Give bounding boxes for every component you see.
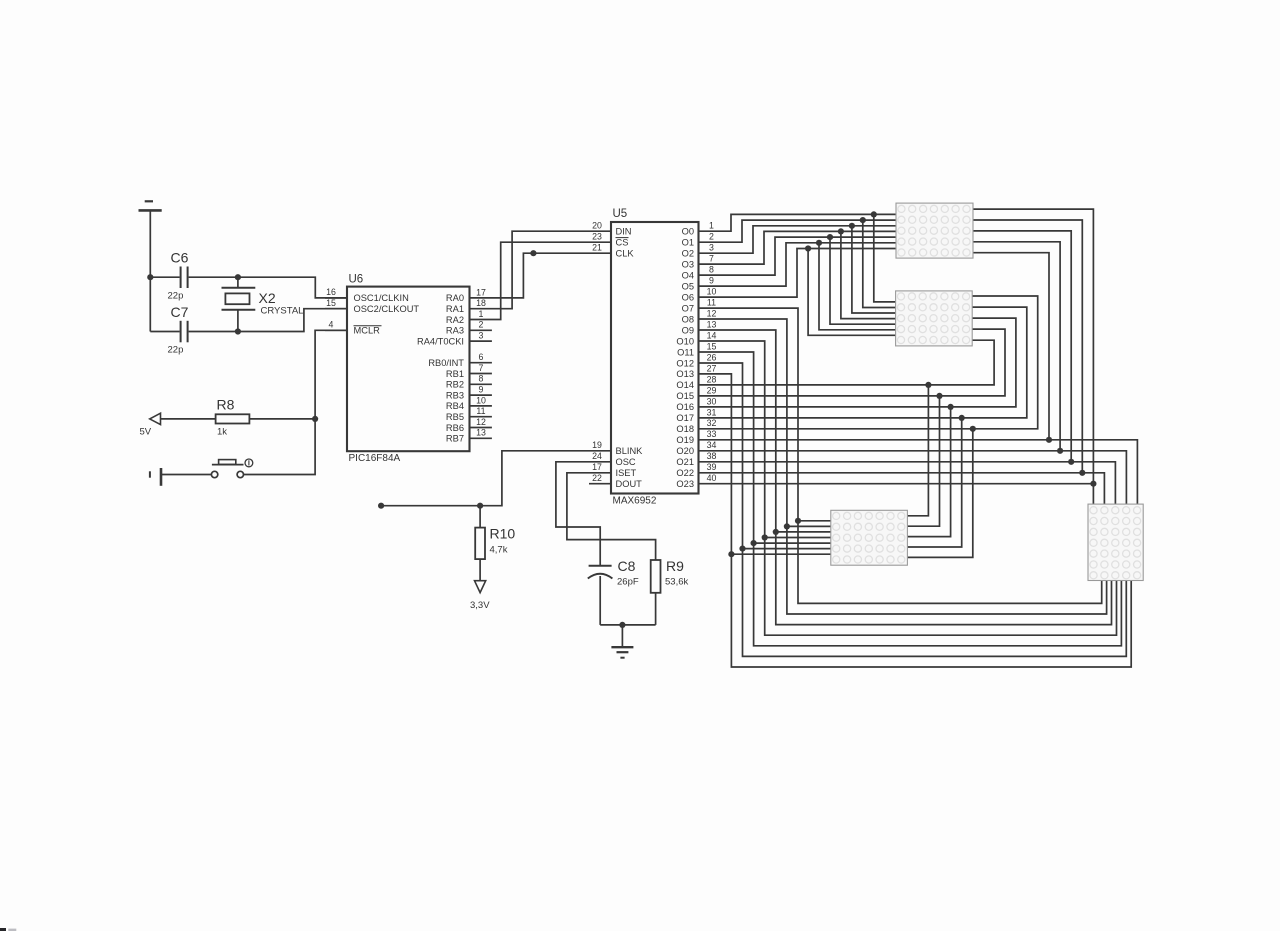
IC U5 MAX6952 [611, 208, 699, 507]
svg-text:39: 39 [707, 462, 717, 472]
svg-text:RB0/INT: RB0/INT [428, 358, 464, 368]
node junction O17-DISP3R [959, 415, 965, 421]
svg-text:2: 2 [709, 232, 714, 242]
node junction O2 row [849, 223, 855, 229]
wire O11 (pin 15) down to DISP4 bottom [699, 352, 1122, 646]
node net stub end [378, 503, 384, 509]
wire RA0 to U5 CLK [470, 253, 612, 298]
svg-text:O23: O23 [676, 479, 694, 489]
ground GND2 (C8/R9) [611, 625, 633, 658]
wire BLINK net [381, 451, 611, 506]
LED matrix display DISP3 (5x7) [831, 510, 908, 565]
svg-text:O8: O8 [682, 314, 694, 324]
wire branch O14 to DISP3 right row1 [907, 385, 928, 516]
svg-text:O21: O21 [676, 457, 694, 467]
wire button left [161, 474, 212, 476]
svg-text:7: 7 [479, 363, 484, 373]
svg-text:X2: X2 [259, 290, 276, 306]
svg-text:4: 4 [329, 319, 334, 329]
resistor R8 1k [161, 397, 316, 438]
node junction X2 top [235, 274, 241, 280]
svg-text:C6: C6 [171, 250, 189, 266]
wire GND1 rail [149, 210, 151, 331]
capacitor C7 [168, 304, 189, 356]
wire DISP1 right row3 down [973, 231, 1071, 462]
wire branch O13 to DISP3 row7 [731, 553, 830, 555]
svg-text:14: 14 [707, 330, 717, 340]
svg-text:32: 32 [707, 418, 717, 428]
node junction ground [619, 622, 625, 628]
svg-text:O1: O1 [682, 238, 694, 248]
svg-text:11: 11 [707, 298, 716, 308]
node junction O12-DISP3 [739, 546, 745, 552]
svg-text:8: 8 [709, 265, 714, 275]
svg-text:CS: CS [616, 238, 629, 248]
wire DISP1 row4 to DISP2 row4 vertical [841, 231, 896, 318]
wire DISP1 row5 to DISP2 row5 vertical [830, 237, 896, 324]
svg-text:33: 33 [707, 429, 717, 439]
wire branch O12 to DISP3 row6 [743, 548, 831, 550]
svg-text:15: 15 [707, 341, 717, 351]
wire O3 (pin 7) to DISP1 row4 [699, 231, 897, 264]
resistor R9 53,6k [622, 558, 688, 625]
svg-text:RA1: RA1 [446, 304, 464, 314]
wire DISP1 right row2 down [973, 220, 1082, 473]
wire O20 (pin 34) to DISP4 top col4 [699, 451, 1127, 504]
svg-text:23: 23 [592, 232, 602, 242]
wire O10 (pin 14) down to DISP4 bottom [699, 341, 1117, 635]
svg-text:20: 20 [592, 221, 602, 231]
wire O16 (pin 30) to DISP2 right row3 [699, 318, 1016, 407]
wire O4 (pin 8) to DISP1 row5 [699, 237, 897, 275]
scan artifact mark [0, 928, 16, 931]
svg-text:27: 27 [707, 363, 717, 373]
svg-text:12: 12 [707, 308, 717, 318]
node junction O1 row [860, 217, 866, 223]
svg-text:26: 26 [707, 352, 717, 362]
svg-text:53,6k: 53,6k [665, 577, 688, 588]
crystal X2 [222, 277, 304, 331]
svg-text:O18: O18 [676, 424, 694, 434]
svg-text:24: 24 [592, 451, 602, 461]
svg-text:17: 17 [476, 287, 486, 297]
node junction O19-DISP1R [1046, 437, 1052, 443]
svg-text:29: 29 [707, 385, 717, 395]
node junction O7-DISP3 [795, 518, 801, 524]
svg-text:19: 19 [592, 440, 602, 450]
wire O22 (pin 39) to DISP4 top col2 [699, 473, 1105, 504]
svg-text:RB6: RB6 [446, 423, 464, 433]
svg-text:RB4: RB4 [446, 401, 464, 411]
svg-text:PIC16F84A: PIC16F84A [349, 453, 401, 464]
svg-text:34: 34 [707, 440, 717, 450]
wire O6 (pin 10) to DISP1 row7 [699, 249, 897, 298]
svg-text:ISET: ISET [616, 468, 637, 478]
node junction O14-DISP3R [925, 382, 931, 388]
svg-text:RB7: RB7 [446, 434, 464, 444]
wire O8 (pin 12) down to DISP4 bottom [699, 319, 1107, 614]
svg-text:9: 9 [479, 385, 484, 395]
svg-text:22p: 22p [168, 291, 184, 302]
svg-text:DIN: DIN [616, 227, 632, 237]
node junction O0 row [871, 211, 877, 217]
node junction X2 bottom [235, 328, 241, 334]
wire OSC2 net: rail to C7 to X2 to U6 pin15 [150, 309, 347, 332]
svg-text:O7: O7 [682, 303, 694, 313]
svg-text:CLK: CLK [616, 249, 635, 259]
svg-text:1: 1 [479, 309, 484, 319]
node junction R10 [477, 503, 483, 509]
wire O15 (pin 29) to DISP2 right row4 [699, 329, 1006, 396]
wire O12 (pin 26) down to DISP4 bottom [699, 363, 1127, 656]
wire branch O11 to DISP3 row5 [754, 542, 831, 544]
wire branch O16 to DISP3 right row3 [907, 407, 950, 537]
svg-text:3,3V: 3,3V [470, 600, 490, 611]
svg-text:O2: O2 [682, 249, 694, 259]
wire O13 (pin 27) down to DISP4 bottom [699, 374, 1132, 667]
svg-text:5V: 5V [140, 427, 152, 438]
wire RA2 to U5 CS [470, 242, 612, 319]
svg-text:RA4/T0CKI: RA4/T0CKI [417, 336, 464, 346]
svg-text:U6: U6 [349, 274, 364, 286]
svg-text:18: 18 [476, 298, 486, 308]
wire DISP1 right row1 down [973, 209, 1093, 504]
power 5V arrow [140, 413, 161, 437]
svg-text:RB1: RB1 [446, 369, 464, 379]
svg-text:7: 7 [709, 254, 714, 264]
svg-text:28: 28 [707, 374, 717, 384]
wire branch O15 to DISP3 right row2 [907, 396, 939, 526]
wire branch O10 to DISP3 row4 [765, 537, 831, 539]
svg-text:O10: O10 [676, 336, 694, 346]
svg-text:16: 16 [326, 287, 336, 297]
node junction C6-rail [147, 274, 153, 280]
svg-text:1k: 1k [217, 427, 227, 438]
svg-text:RA2: RA2 [446, 315, 464, 325]
power 3,3V arrow [470, 581, 490, 611]
svg-text:3: 3 [709, 243, 714, 253]
svg-text:22p: 22p [168, 345, 184, 356]
wire O1 (pin 2) to DISP1 row2 [699, 220, 897, 242]
node junction O18-DISP3R [970, 426, 976, 432]
node junction O3 row [838, 228, 844, 234]
svg-text:O0: O0 [682, 227, 694, 237]
wire DISP1 right row4 down [973, 242, 1060, 451]
svg-text:15: 15 [326, 298, 336, 308]
pin stub DOUT unconnected [589, 483, 611, 485]
svg-text:O6: O6 [682, 292, 694, 302]
svg-text:22: 22 [592, 473, 602, 483]
svg-text:RA0: RA0 [446, 293, 464, 303]
wire branch O17 to DISP3 right row4 [907, 418, 961, 547]
wire DISP1 row1 to DISP2 row1 vertical [874, 214, 896, 302]
svg-text:U5: U5 [613, 208, 628, 220]
wire DISP1 row3 to DISP2 row3 vertical [852, 226, 896, 313]
wire OSC1 net: rail to C6 to X2 to U6 pin16 [150, 277, 347, 298]
svg-text:C8: C8 [618, 558, 636, 574]
svg-text:9: 9 [709, 276, 714, 286]
wire DISP1 row6 to DISP2 row6 vertical [819, 243, 896, 330]
wire U6 left pin stubs [325, 298, 347, 330]
node junction O6 row [805, 245, 811, 251]
wire DISP1 row2 to DISP2 row2 vertical [863, 220, 896, 307]
wire branch O7 to DISP3 row1 [798, 520, 831, 522]
svg-text:RB5: RB5 [446, 412, 464, 422]
svg-text:R8: R8 [217, 397, 235, 413]
node junction O11-DISP3 [751, 540, 757, 546]
svg-text:13: 13 [707, 319, 717, 329]
wire DISP1 row7 to DISP2 row7 vertical [808, 249, 896, 336]
pin numbers U5 left [592, 221, 602, 484]
svg-text:O12: O12 [676, 358, 694, 368]
wire O0 (pin 1) to DISP1 row1 [699, 214, 897, 231]
svg-text:OSC1/CLKIN: OSC1/CLKIN [354, 293, 409, 303]
wire ISET net to R9 [567, 473, 656, 560]
node junction O8-DISP3 [784, 523, 790, 529]
node junction O16-DISP3R [948, 404, 954, 410]
svg-text:2: 2 [479, 320, 484, 330]
svg-text:21: 21 [592, 243, 602, 253]
svg-text:O16: O16 [676, 402, 694, 412]
svg-text:17: 17 [592, 462, 602, 472]
svg-text:8: 8 [479, 374, 484, 384]
svg-text:13: 13 [476, 428, 486, 438]
node junction O4 row [827, 234, 833, 240]
svg-text:O15: O15 [676, 391, 694, 401]
svg-text:CRYSTAL: CRYSTAL [261, 306, 304, 317]
svg-text:3: 3 [479, 331, 484, 341]
svg-text:O5: O5 [682, 281, 694, 291]
svg-text:40: 40 [707, 473, 717, 483]
svg-text:38: 38 [707, 451, 717, 461]
wire RA1 to U5 DIN [470, 231, 612, 309]
wire MCLR net: U6 pin4 to button, R8 tap [244, 330, 348, 474]
wire O14 (pin 28) to DISP2 right row5 [699, 340, 995, 385]
pin stubs U6 right unconnected [470, 330, 492, 438]
svg-text:11: 11 [476, 406, 485, 416]
svg-text:10: 10 [707, 287, 717, 297]
wire O5 (pin 9) to DISP1 row6 [699, 243, 897, 286]
svg-text:O17: O17 [676, 413, 694, 423]
node junction R8-MCLR [312, 416, 318, 422]
node junction O9-DISP3 [773, 529, 779, 535]
svg-text:O20: O20 [676, 446, 694, 456]
node junction O21-DISP1R [1068, 459, 1074, 465]
resistor R10 4,7k [475, 506, 515, 581]
LED matrix display DISP2 (5x7) [896, 291, 973, 346]
ground GND3 (button, sideways) [150, 468, 161, 486]
svg-text:OSC2/CLKOUT: OSC2/CLKOUT [354, 304, 420, 314]
node junction O13-DISP3 [728, 551, 734, 557]
wire O19 (pin 33) to DISP4 top col5 [699, 440, 1138, 504]
node junction O5 row [816, 240, 822, 246]
svg-text:R9: R9 [666, 558, 684, 574]
svg-text:MAX6952: MAX6952 [613, 496, 657, 507]
svg-text:6: 6 [479, 352, 484, 362]
svg-text:10: 10 [476, 395, 486, 405]
LED matrix display DISP1 (5x7) [896, 203, 973, 258]
svg-text:BLINK: BLINK [616, 446, 644, 456]
svg-text:O11: O11 [677, 347, 694, 357]
node junction O10-DISP3 [762, 534, 768, 540]
pin numbers U5 right [707, 221, 717, 484]
push-button S1 [211, 459, 252, 478]
capacitor C8 26pF [588, 558, 639, 625]
svg-text:R10: R10 [490, 526, 516, 542]
capacitor C6 [168, 250, 189, 302]
svg-text:O9: O9 [682, 325, 694, 335]
svg-text:12: 12 [476, 417, 486, 427]
wire DISP1 right row5 down [973, 253, 1049, 440]
svg-text:4,7k: 4,7k [490, 545, 508, 556]
LED matrix display DISP4 (5x7 portrait) [1088, 504, 1143, 580]
node junction O22-DISP1R [1079, 470, 1085, 476]
svg-text:31: 31 [707, 407, 717, 417]
svg-text:1: 1 [709, 221, 714, 231]
wire O7 (pin 11) down to DISP4 bottom [699, 308, 1102, 603]
wire branch O9 to DISP3 row3 [776, 531, 831, 533]
svg-text:O22: O22 [676, 468, 694, 478]
wire O21 (pin 38) to DISP4 top col3 [699, 462, 1116, 504]
node junction O15-DISP3R [936, 393, 942, 399]
svg-text:O19: O19 [676, 435, 694, 445]
wire OSC net to C8 [556, 462, 611, 565]
svg-text:RB3: RB3 [446, 390, 464, 400]
svg-text:RA3: RA3 [446, 326, 464, 336]
pin numbers U6 right [476, 287, 486, 437]
svg-text:O14: O14 [676, 380, 694, 390]
svg-text:MCLR: MCLR [354, 326, 381, 336]
IC U6 PIC16F84A [347, 274, 470, 465]
svg-text:O13: O13 [676, 369, 694, 379]
wire O18 (pin 32) to DISP2 right row1 [699, 296, 1038, 429]
svg-text:26pF: 26pF [617, 577, 639, 588]
wire O17 (pin 31) to DISP2 right row2 [699, 307, 1027, 418]
svg-text:30: 30 [707, 396, 717, 406]
svg-text:OSC: OSC [616, 457, 636, 467]
node junction O23-DISP1R [1090, 481, 1096, 487]
wire branch O8 to DISP3 row2 [787, 525, 831, 527]
svg-text:C7: C7 [171, 304, 189, 320]
svg-text:DOUT: DOUT [616, 479, 643, 489]
svg-text:O4: O4 [682, 270, 694, 280]
node junction O20-DISP1R [1057, 448, 1063, 454]
wire O9 (pin 13) down to DISP4 bottom [699, 330, 1112, 625]
ground GND1 (top-left) [139, 201, 162, 210]
node junction on CLK wire [530, 250, 536, 256]
svg-text:RB2: RB2 [446, 380, 464, 390]
wire O2 (pin 3) to DISP1 row3 [699, 226, 897, 253]
svg-text:O3: O3 [682, 259, 694, 269]
wire branch O18 to DISP3 right row5 [907, 429, 972, 558]
wire O23 (pin 40) to DISP4 col1 junction [699, 483, 1094, 485]
